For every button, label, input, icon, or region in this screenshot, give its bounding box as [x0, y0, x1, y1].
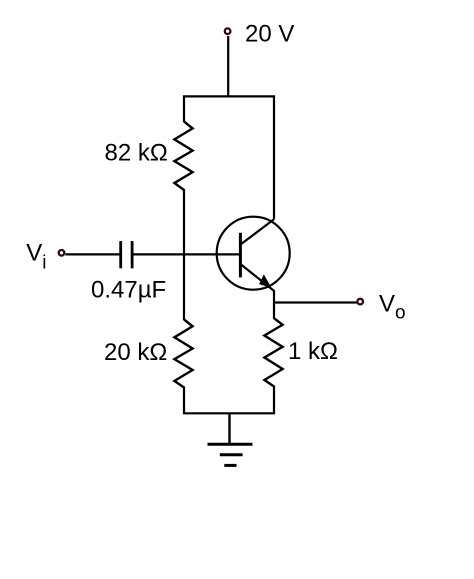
- terminal Vo: [357, 299, 363, 305]
- wire left vertical (R1 bottom to base node to R2 top): [183, 189, 185, 320]
- wire top rail: [184, 96, 274, 219]
- resistor R3 1k zigzag: [264, 318, 282, 386]
- resistor R2 20k zigzag: [174, 320, 192, 388]
- resistor R1 82k zigzag: [174, 122, 192, 190]
- wire output node to Vo terminal: [274, 301, 357, 303]
- transistor Q1 emitter arrowhead: [260, 276, 271, 288]
- transistor Q1 base bar: [239, 233, 242, 278]
- svg-text:20 kΩ: 20 kΩ: [104, 339, 167, 366]
- capacitor C1 plates: [121, 241, 132, 268]
- transistor Q1 collector diagonal: [242, 219, 275, 244]
- svg-text:82 kΩ: 82 kΩ: [105, 139, 168, 166]
- wire capacitor to base: [133, 253, 239, 255]
- wire R2 bottom to ground rail: [183, 387, 185, 414]
- wire supply stem: [227, 36, 229, 96]
- svg-text:Vo: Vo: [379, 291, 406, 324]
- wire emitter vertical to output node: [273, 290, 275, 319]
- transistor Q1 circle: [217, 217, 290, 290]
- svg-text:0.47µF: 0.47µF: [91, 277, 166, 304]
- terminal Vi: [59, 250, 65, 256]
- ground symbol: [208, 444, 253, 465]
- transistor Q1 emitter diagonal with arrow: [242, 265, 275, 291]
- wire R3 bottom to ground rail: [273, 386, 275, 414]
- wire ground stem: [228, 413, 230, 444]
- wire bottom ground rail: [184, 412, 274, 414]
- terminal VCC (supply): [225, 28, 231, 34]
- svg-text:Vi: Vi: [26, 240, 46, 274]
- wire Vi to capacitor: [65, 253, 119, 255]
- svg-text:1 kΩ: 1 kΩ: [288, 338, 338, 365]
- svg-text:20 V: 20 V: [245, 20, 294, 47]
